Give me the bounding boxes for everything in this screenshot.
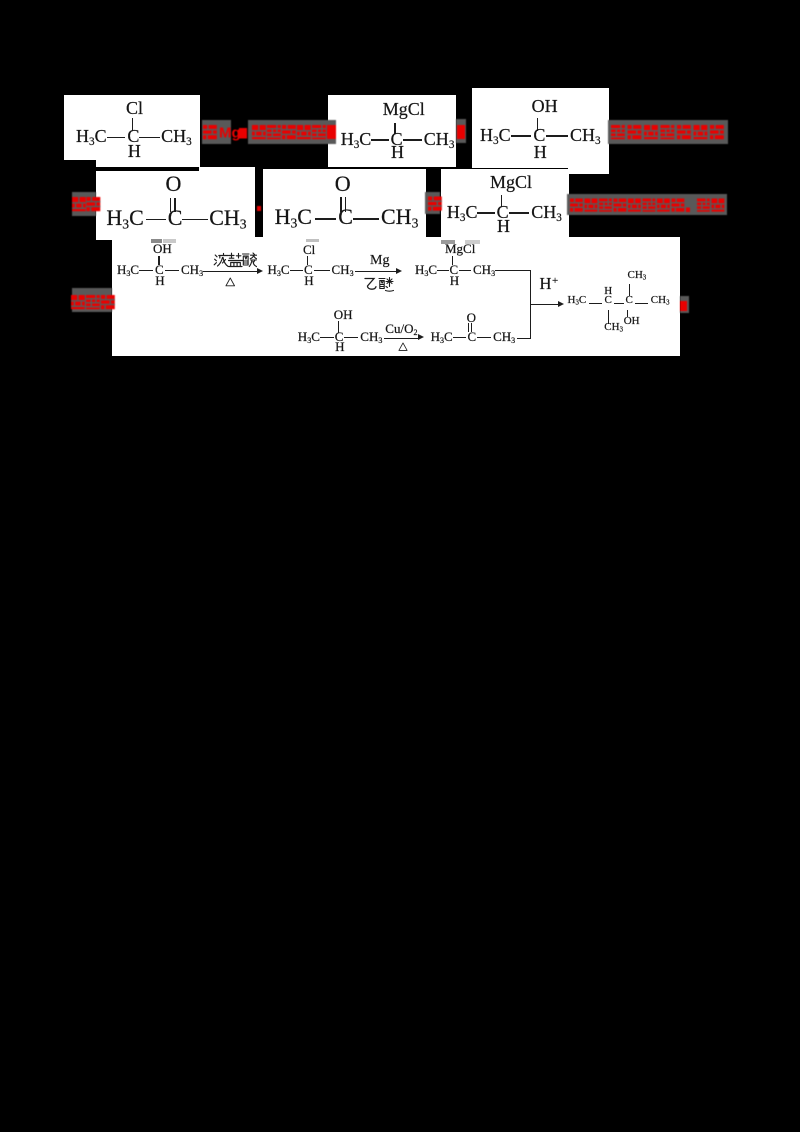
arrow head bbox=[396, 268, 402, 274]
atom CH3 right bbox=[651, 295, 670, 306]
atom H over C1 bbox=[604, 286, 612, 297]
bond H3C-C bbox=[477, 212, 495, 214]
label delta bbox=[225, 277, 236, 288]
note A red text: 与Mg、乙醚... bbox=[203, 124, 337, 141]
bond H3C-C bbox=[511, 135, 531, 137]
bond C2-OH bbox=[627, 310, 628, 318]
label MgCl bbox=[445, 242, 475, 255]
box B1 white panel (2-chloropropane) bbox=[64, 95, 200, 167]
atom H under C bbox=[497, 217, 510, 235]
label 浓盐酸 bbox=[213, 252, 257, 268]
scheme product: 2,3-dimethyl-2-butanol bbox=[0, 0, 800, 1]
atom H under C bbox=[450, 274, 459, 287]
box B2 white panel (isopropylmagnesium chloride) bbox=[328, 95, 456, 167]
atom CH3 bbox=[424, 130, 455, 148]
bond H3C-C bbox=[315, 218, 336, 220]
note D grey rect + red text (row2 right) bbox=[567, 194, 727, 215]
scheme structure P1: 2-propanol bbox=[0, 0, 800, 1]
atom H3C bbox=[275, 206, 312, 228]
scheme structure P5: acetone (bottom branch) bbox=[0, 0, 800, 1]
label H+ bbox=[540, 276, 552, 293]
annotation grey dash over Cl bbox=[306, 239, 319, 242]
atom C bbox=[304, 263, 313, 276]
label OH bbox=[532, 97, 558, 115]
label 乙醚 bbox=[362, 276, 394, 292]
label Mg bbox=[370, 254, 389, 268]
atom CH3 bbox=[493, 330, 515, 343]
atom H under C bbox=[128, 142, 141, 160]
bond C-Cl bbox=[132, 118, 133, 131]
note B grey rect + red text bbox=[608, 120, 728, 144]
scheme white panel bbox=[112, 237, 680, 356]
atom CH3 bbox=[570, 126, 601, 144]
atom H3C left bbox=[568, 295, 587, 306]
glyph defs for hand-drawn CJK labels bbox=[0, 0, 1, 1]
svg-text:Mg: Mg bbox=[219, 125, 241, 142]
atom C bbox=[497, 203, 509, 221]
atom H3C bbox=[480, 126, 511, 144]
bond H3C-C bbox=[320, 337, 334, 338]
structure 2-chloropropane bbox=[0, 0, 800, 1]
atom H under C bbox=[155, 274, 164, 287]
bond C-Mg bbox=[501, 195, 502, 207]
red period after scheme bbox=[680, 296, 690, 313]
atom C bbox=[450, 263, 459, 276]
wire: from bottom acetone CH3 right bbox=[517, 338, 531, 339]
atom H3C bbox=[415, 263, 437, 276]
structure iPrMgCl 2 bbox=[0, 0, 800, 1]
bond C-O bbox=[158, 256, 159, 265]
label Cl bbox=[126, 99, 143, 117]
bond H3C-C bbox=[371, 139, 390, 141]
atom C bbox=[391, 130, 403, 148]
atom OH below C2 bbox=[624, 316, 640, 327]
red comma between B2 and B3 bbox=[456, 119, 466, 143]
arrow line bbox=[384, 338, 419, 339]
arrow 1 with label 浓盐酸 / delta bbox=[0, 0, 800, 1]
box B6 white panel (isopropylmagnesium chloride) bbox=[441, 169, 570, 240]
atom H under C bbox=[534, 143, 547, 161]
bracket connector lines bbox=[0, 0, 800, 1]
label MgCl bbox=[490, 173, 532, 191]
annotation grey dash over OH bbox=[151, 239, 162, 243]
double bond C=O bbox=[340, 197, 342, 212]
bond C-CH3 bbox=[344, 337, 358, 338]
bond C-CH3 bbox=[182, 219, 208, 221]
atom H under C bbox=[335, 340, 344, 353]
bond C-CH3 bbox=[353, 218, 380, 220]
atom CH3 bbox=[332, 263, 354, 276]
atom H3C bbox=[341, 130, 372, 148]
note E: 3 glyphs row3 left bbox=[72, 288, 112, 312]
atom C bbox=[155, 263, 164, 276]
box B5 white panel (acetone) bbox=[263, 169, 426, 241]
arrow to product bbox=[530, 304, 559, 305]
atom CH3 bbox=[381, 206, 418, 228]
atom C bbox=[533, 126, 545, 144]
label MgCl bbox=[383, 100, 425, 118]
bond C1-CH3 bottom bbox=[608, 310, 609, 325]
atom H3C bbox=[447, 203, 478, 221]
atom H3C bbox=[431, 330, 453, 343]
label OH bbox=[153, 242, 172, 255]
bond C1-C2 bbox=[614, 303, 624, 304]
bond C-CH3 bbox=[477, 337, 491, 338]
atom CH3 bbox=[531, 203, 562, 221]
structure 2-propanol bbox=[0, 0, 800, 1]
atom C bbox=[468, 330, 477, 343]
scheme structure P3: iPrMgCl bbox=[0, 0, 800, 1]
bond H3C-C bbox=[107, 137, 126, 139]
arrow head bbox=[418, 334, 424, 340]
bond C-CH3 bbox=[165, 270, 180, 271]
double bond C=O bbox=[170, 198, 172, 212]
box B3 white panel (2-propanol) bbox=[472, 88, 609, 168]
bond C2-CH3 right bbox=[635, 303, 648, 304]
atom H3C bbox=[117, 263, 139, 276]
bond C-CH3 bbox=[403, 139, 423, 141]
bond C-CH3 bbox=[139, 137, 159, 139]
bond H3C-C bbox=[290, 270, 304, 271]
bond H3C-C1 bbox=[589, 303, 602, 304]
arrow 2 with label Mg / 乙醚 bbox=[0, 0, 800, 1]
atom C bbox=[335, 330, 344, 343]
structure iPrMgCl bbox=[0, 0, 800, 1]
note A grey patches bbox=[202, 120, 231, 144]
bond H3C-C bbox=[146, 219, 166, 221]
atom H under C bbox=[391, 143, 404, 161]
atom C bbox=[338, 206, 353, 228]
bond H3C-C bbox=[139, 270, 153, 271]
box B4 white panel (acetone) bbox=[96, 171, 255, 241]
atom H3C bbox=[76, 127, 107, 145]
atom C bbox=[127, 127, 139, 145]
arrow line bbox=[203, 271, 258, 272]
bond C-O bbox=[537, 118, 538, 131]
double bond C=O bbox=[468, 323, 469, 332]
scheme structure P2: 2-chloropropane bbox=[0, 0, 800, 1]
bond H3C-C bbox=[437, 270, 449, 271]
atom H3C bbox=[298, 330, 320, 343]
bond C-CH3 bbox=[314, 270, 330, 271]
atom C bbox=[168, 207, 183, 229]
label O bbox=[467, 311, 476, 324]
atom CH3 bbox=[209, 207, 246, 229]
label Cu/O2 bbox=[385, 322, 417, 335]
label delta bbox=[398, 342, 408, 352]
bond C-CH3 bbox=[546, 135, 568, 137]
atom H3C bbox=[268, 263, 290, 276]
bond H3C-C bbox=[453, 337, 466, 338]
bond C-Cl bbox=[307, 256, 308, 265]
bond C-CH3 bbox=[509, 212, 529, 214]
structure acetone 1 bbox=[0, 0, 800, 1]
red dot between B4 and B5 bbox=[257, 206, 262, 211]
structure acetone 2 bbox=[0, 0, 800, 1]
atom H3C bbox=[106, 207, 143, 229]
label Cl bbox=[303, 243, 315, 256]
atom CH3 bottom bbox=[604, 322, 623, 333]
atom CH3 top bbox=[628, 270, 647, 281]
note C: "3分" row2 left bbox=[72, 192, 96, 216]
red glyph between B5 and B6 bbox=[425, 192, 440, 214]
scheme structure P4: 2-propanol (bottom branch) bbox=[0, 0, 800, 1]
bond C-Mg bbox=[452, 256, 453, 265]
wire: from P3 CH3 right bbox=[495, 270, 531, 271]
atom CH3 bbox=[181, 263, 203, 276]
arrow line bbox=[355, 271, 397, 272]
arrow 3 with label Cu/O2 / delta bbox=[0, 0, 800, 1]
label O bbox=[166, 173, 182, 195]
label OH bbox=[334, 308, 353, 321]
annotation grey dashes over MgCl bbox=[441, 240, 455, 244]
bond C-CH3 bbox=[459, 270, 471, 271]
arrow head bbox=[257, 268, 263, 274]
atom C2 bbox=[626, 295, 633, 306]
atom H under C bbox=[304, 274, 313, 287]
atom CH3 bbox=[360, 330, 382, 343]
label O bbox=[335, 173, 351, 195]
atom CH3 bbox=[473, 263, 495, 276]
bond CH3-C2 bbox=[629, 284, 630, 296]
wire: vertical bracket bbox=[530, 270, 531, 339]
atom C1 bbox=[605, 295, 612, 306]
atom CH3 bbox=[161, 127, 192, 145]
bond C-O bbox=[338, 321, 339, 333]
bond C-Mg bbox=[394, 123, 395, 134]
